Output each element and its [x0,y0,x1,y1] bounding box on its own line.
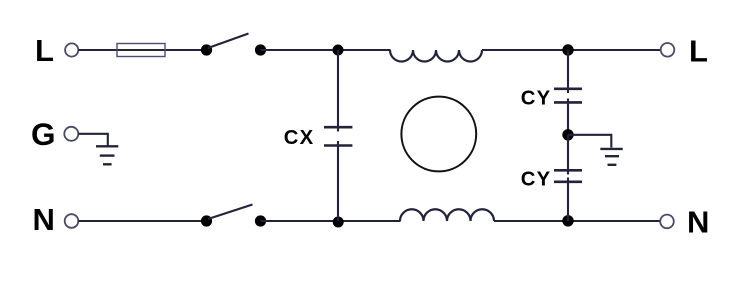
capacitor CY bottom plates [554,169,582,172]
wire CY branch top [567,50,569,93]
svg-text:L: L [35,33,54,68]
switch S1b blade [208,205,253,220]
wire bottom coil to right node [494,220,660,222]
wire top coil to right node [482,49,661,51]
wire CY mid lower [567,135,569,175]
ground symbol left [96,146,118,164]
fuse F1 [117,44,165,57]
wire CX branch upper [337,50,339,132]
junction dot CY midpoint [562,129,573,140]
svg-text:CY: CY [521,88,552,110]
terminal left N [65,214,79,228]
switch S1a pole dot [201,44,212,55]
inductor L1 top winding [390,50,482,62]
switch S1a throw dot [255,44,266,55]
wire switch to top node [261,49,391,51]
capacitor CY top plates [554,88,582,91]
capacitor CX plates [324,126,352,129]
svg-text:G: G [31,116,56,152]
svg-text:N: N [687,204,709,239]
ground symbol right [600,149,622,165]
junction dot top CY node [562,44,573,55]
junction dot bottom CX node [333,217,344,228]
wire CX branch lower [337,141,339,221]
terminal right N [660,215,674,229]
switch S1b pole dot [201,215,212,226]
wire G to ground [78,134,107,146]
terminal right L [661,43,675,57]
wire L left to switch [78,49,202,51]
terminal left L [65,43,78,56]
svg-text:CY: CY [521,168,552,190]
wire CY mid upper [567,99,569,135]
terminal G [64,127,78,141]
wire switch to bottom node [261,220,401,222]
wire CY mid to ground [568,135,611,148]
wire CY branch bottom [567,178,569,222]
common-mode choke core circle [401,97,476,172]
junction dot top CX node [333,45,344,56]
svg-text:CX: CX [284,127,315,149]
inductor L1 bottom winding [400,209,494,221]
svg-text:N: N [33,202,55,237]
switch S1a blade [208,34,249,49]
junction dot bottom CY node [562,215,573,226]
svg-text:L: L [689,34,708,69]
wire N left to switch [78,220,202,222]
switch S1b throw dot [255,215,266,226]
